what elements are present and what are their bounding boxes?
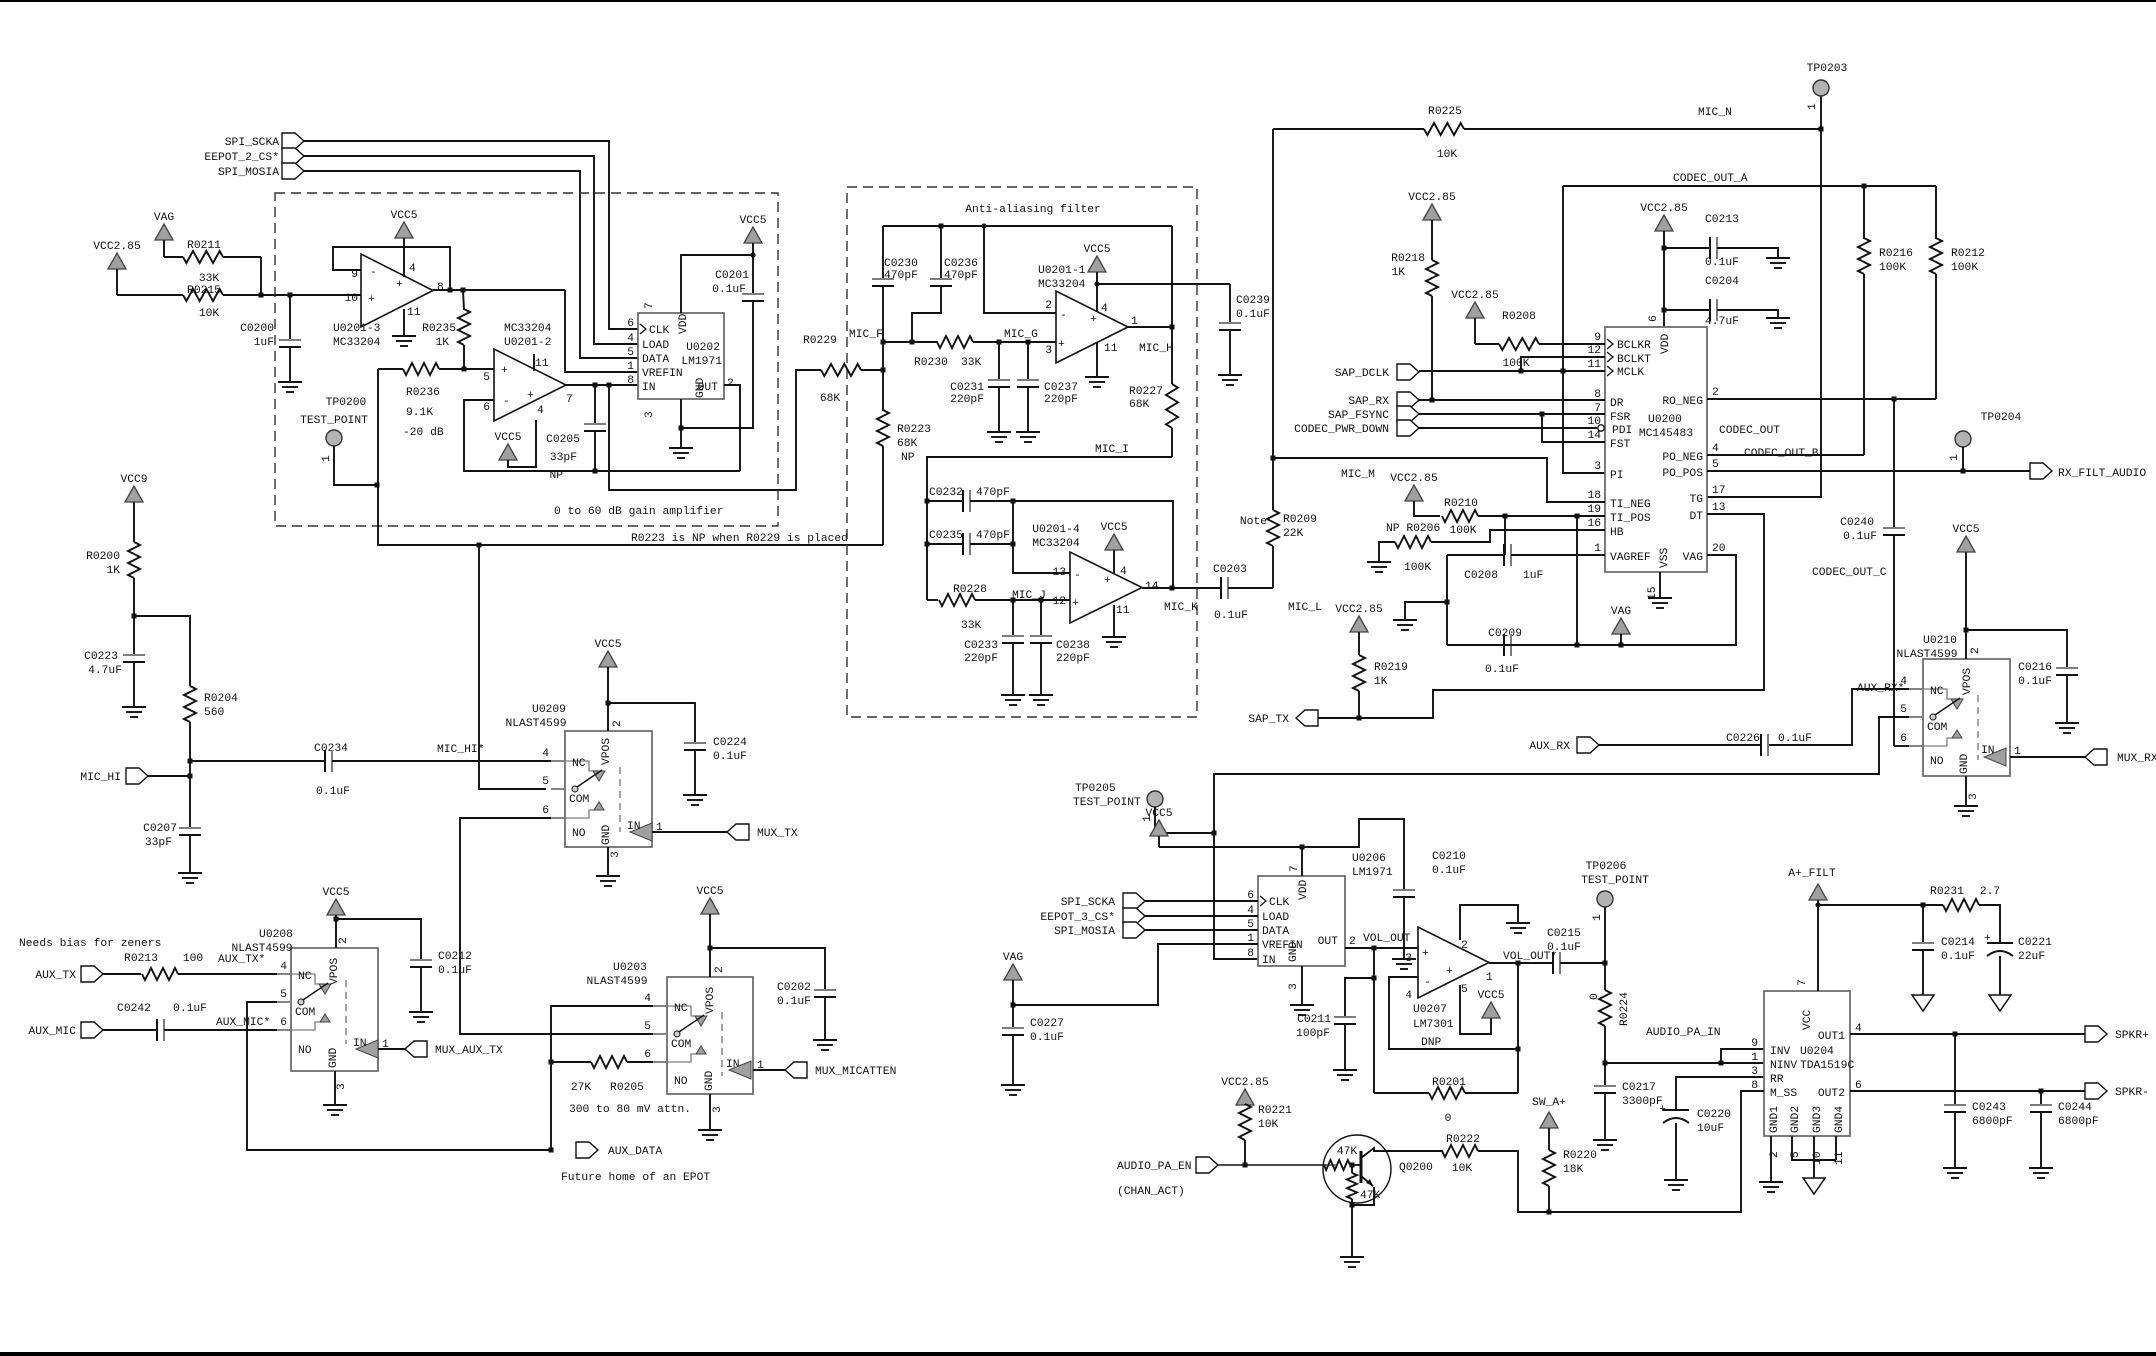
junction R0211/R0215 bbox=[259, 293, 264, 298]
node CODEC_PWR_DOWN input connector bbox=[1294, 420, 1419, 436]
svg-text:0.1uF: 0.1uF bbox=[1843, 531, 1877, 543]
node MIC_J bbox=[1011, 590, 1071, 603]
wire VAG pin20 bbox=[1447, 555, 1736, 648]
chip U0204 TDA1519C bbox=[1751, 979, 1862, 1165]
wire U0201-2 output bbox=[564, 383, 638, 388]
svg-text:C0233: C0233 bbox=[964, 640, 998, 652]
node CODEC_OUT bbox=[1719, 425, 1780, 437]
svg-text:LM7301: LM7301 bbox=[1413, 1019, 1454, 1031]
chip U0203 NLAST4599 bbox=[586, 962, 764, 1113]
resistor R0225 10K bbox=[1273, 106, 1821, 161]
svg-text:R0220: R0220 bbox=[1563, 1150, 1597, 1162]
svg-text:VDD: VDD bbox=[1660, 333, 1672, 354]
wire CODEC_PWR_DOWN to PDI bbox=[1419, 425, 1604, 431]
svg-text:INV: INV bbox=[1770, 1046, 1791, 1058]
node SPI_MOSIA input connector (2) bbox=[1054, 922, 1258, 938]
op-amp U0201-1 bbox=[1038, 265, 1138, 363]
power VCC2.85 (R0215) bbox=[93, 241, 141, 295]
svg-text:VCC5: VCC5 bbox=[390, 210, 417, 222]
svg-text:VCC2.85: VCC2.85 bbox=[1451, 290, 1499, 302]
svg-text:A+_FILT: A+_FILT bbox=[1788, 868, 1836, 880]
svg-text:SPI_MOSIA: SPI_MOSIA bbox=[1054, 926, 1115, 938]
svg-text:470pF: 470pF bbox=[944, 270, 978, 282]
svg-text:0.1uF: 0.1uF bbox=[1778, 733, 1812, 745]
wire SAP_FSYNC to FSR bbox=[1419, 412, 1605, 417]
power SW_A+ bbox=[1532, 1097, 1566, 1150]
wire PO_NEG to R0216 bbox=[1707, 454, 1864, 456]
ground U0206 GND bbox=[1290, 966, 1314, 1015]
svg-text:M_SS: M_SS bbox=[1770, 1088, 1797, 1100]
svg-text:+: + bbox=[1072, 598, 1079, 610]
wire U0207 pin4 loop bbox=[1389, 977, 1518, 1049]
svg-text:VREFIN: VREFIN bbox=[642, 368, 683, 380]
testpoint TP0203 bbox=[1807, 63, 1848, 132]
wire R0236 input net bbox=[378, 369, 883, 545]
chip U0209 NLAST4599 bbox=[505, 704, 663, 858]
svg-text:VOL_OUT: VOL_OUT bbox=[1363, 933, 1411, 945]
resistor R0209 22K bbox=[1240, 458, 1317, 588]
svg-text:TDA1519C: TDA1519C bbox=[1800, 1060, 1854, 1072]
svg-text:C0202: C0202 bbox=[777, 982, 811, 994]
wire MIC_I bbox=[927, 444, 1172, 600]
power VAG (codec) bbox=[1611, 606, 1632, 645]
svg-text:5: 5 bbox=[1712, 459, 1719, 471]
svg-text:4: 4 bbox=[644, 993, 651, 1005]
svg-text:C0227: C0227 bbox=[1030, 1018, 1064, 1030]
svg-text:100K: 100K bbox=[1404, 562, 1431, 574]
svg-text:8: 8 bbox=[437, 282, 444, 294]
ground codec VSS bbox=[1648, 572, 1672, 608]
svg-text:+: + bbox=[1446, 966, 1453, 978]
svg-text:FSR: FSR bbox=[1610, 412, 1631, 424]
svg-text:+: + bbox=[1090, 314, 1097, 326]
resistor R0223 68K NP bbox=[877, 342, 931, 545]
svg-text:7: 7 bbox=[1289, 865, 1301, 872]
svg-text:MUX_RX: MUX_RX bbox=[2117, 753, 2156, 765]
resistor R0222 10K bbox=[1442, 1134, 1480, 1175]
svg-text:R0208: R0208 bbox=[1502, 311, 1536, 323]
svg-text:18K: 18K bbox=[1563, 1164, 1584, 1176]
node AUX_DATA output connector bbox=[576, 1142, 662, 1158]
resistor R0205 27K bbox=[551, 1056, 653, 1094]
svg-text:RR: RR bbox=[1770, 1074, 1784, 1086]
resistor R0206 100K NP bbox=[1367, 523, 1605, 574]
wire U0201-3 output bbox=[433, 288, 565, 293]
svg-text:GND1: GND1 bbox=[1769, 1106, 1781, 1133]
svg-text:SAP_TX: SAP_TX bbox=[1248, 714, 1289, 726]
svg-text:DNP: DNP bbox=[1421, 1037, 1442, 1049]
svg-text:4: 4 bbox=[280, 961, 287, 973]
svg-text:TI_NEG: TI_NEG bbox=[1610, 499, 1651, 511]
node EEPOT_2_CS* input connector bbox=[204, 148, 304, 164]
ground U0207 pin2 bbox=[1460, 905, 1530, 940]
wire MIC_HI node bbox=[188, 759, 193, 829]
op-amp U0201-4 bbox=[1032, 524, 1159, 623]
svg-text:C0238: C0238 bbox=[1056, 640, 1090, 652]
svg-text:MUX_AUX_TX: MUX_AUX_TX bbox=[435, 1045, 503, 1057]
svg-text:6: 6 bbox=[644, 1049, 651, 1061]
svg-text:MIC_L: MIC_L bbox=[1288, 602, 1322, 614]
svg-text:0.1uF: 0.1uF bbox=[173, 1003, 207, 1015]
svg-text:0: 0 bbox=[1445, 1113, 1452, 1125]
svg-text:2: 2 bbox=[1970, 647, 1982, 654]
resistor R0228 33K bbox=[927, 584, 1013, 632]
node MUX_MICATTEN input connector bbox=[785, 1062, 896, 1078]
wire gain-input to U0209 COM bbox=[479, 545, 546, 789]
wire RO_NEG to R0212 bbox=[1707, 397, 1936, 402]
wire OUT2 SPKR- bbox=[1850, 1089, 2085, 1094]
svg-text:C0210: C0210 bbox=[1432, 851, 1466, 863]
power A+_FILT bbox=[1788, 868, 1836, 991]
svg-text:U0210: U0210 bbox=[1923, 635, 1957, 647]
node SAP_FSYNC input connector bbox=[1328, 406, 1419, 422]
node AUX_RX* label bbox=[1857, 683, 1904, 695]
svg-text:R0213: R0213 bbox=[124, 953, 158, 965]
svg-text:1: 1 bbox=[1592, 914, 1604, 921]
svg-text:1K: 1K bbox=[106, 565, 120, 577]
svg-text:VCC2.85: VCC2.85 bbox=[1640, 203, 1688, 215]
svg-text:0.1uF: 0.1uF bbox=[2018, 676, 2052, 688]
wire U0208 IN to MUX_AUX_TX bbox=[378, 1048, 405, 1050]
capacitor C0203 0.1uF bbox=[1172, 564, 1273, 622]
wire CODEC_OUT_A rail bbox=[1563, 184, 1936, 189]
ground U0201-1 pin11 bbox=[1085, 343, 1109, 387]
svg-text:4: 4 bbox=[1120, 566, 1127, 578]
svg-text:2: 2 bbox=[714, 966, 726, 973]
svg-text:0.1uF: 0.1uF bbox=[1030, 1032, 1064, 1044]
svg-text:0.1uF: 0.1uF bbox=[712, 284, 746, 296]
resistor R0229 68K bbox=[803, 335, 886, 405]
svg-text:0.1uF: 0.1uF bbox=[316, 786, 350, 798]
svg-text:-: - bbox=[370, 267, 377, 279]
svg-text:U0202: U0202 bbox=[686, 342, 720, 354]
svg-text:PO_POS: PO_POS bbox=[1662, 468, 1703, 480]
node SPKR- output connector bbox=[2085, 1083, 2149, 1099]
svg-text:2: 2 bbox=[1461, 940, 1468, 952]
svg-text:4: 4 bbox=[1405, 990, 1412, 1002]
chip U0206 LM1971 bbox=[1247, 853, 1393, 990]
power VCC5 (U0202) bbox=[739, 215, 766, 255]
svg-text:MIC_H: MIC_H bbox=[1139, 343, 1173, 355]
svg-text:OUT2: OUT2 bbox=[1818, 1088, 1845, 1100]
svg-text:PI: PI bbox=[1610, 470, 1624, 482]
svg-text:33K: 33K bbox=[199, 273, 220, 285]
svg-text:4.7uF: 4.7uF bbox=[88, 665, 122, 677]
svg-text:VPOS: VPOS bbox=[329, 958, 341, 985]
svg-text:MUX_MICATTEN: MUX_MICATTEN bbox=[815, 1066, 896, 1078]
svg-text:1uF: 1uF bbox=[254, 337, 274, 349]
svg-text:3: 3 bbox=[712, 1106, 724, 1113]
svg-text:U0201-4: U0201-4 bbox=[1032, 524, 1080, 536]
op-amp U0207 bbox=[1405, 927, 1493, 1049]
svg-text:SPKR+: SPKR+ bbox=[2115, 1030, 2149, 1042]
capacitor C0223 4.7uF bbox=[84, 616, 146, 717]
svg-text:IN: IN bbox=[1262, 955, 1276, 967]
svg-text:0: 0 bbox=[1589, 993, 1601, 1000]
svg-text:33K: 33K bbox=[961, 357, 982, 369]
svg-text:VPOS: VPOS bbox=[1962, 668, 1974, 695]
svg-text:C0217: C0217 bbox=[1622, 1082, 1656, 1094]
svg-text:NC: NC bbox=[1930, 686, 1944, 698]
svg-text:0.1uF: 0.1uF bbox=[713, 751, 747, 763]
svg-text:TP0200: TP0200 bbox=[326, 397, 367, 409]
svg-text:8: 8 bbox=[627, 375, 634, 387]
svg-text:2: 2 bbox=[727, 378, 734, 390]
resistor R0231 2.7 bbox=[1923, 886, 2000, 943]
svg-text:VPOS: VPOS bbox=[705, 987, 717, 1014]
node CODEC_OUT_A bbox=[1673, 173, 1748, 185]
wire VCC9 to R0204 bbox=[134, 616, 190, 686]
svg-text:11: 11 bbox=[407, 307, 421, 319]
resistor R0212 100K bbox=[1930, 186, 1985, 399]
power VCC5 (U0201-2 pin4) bbox=[494, 420, 536, 467]
power VCC2.85 (R0210) bbox=[1390, 473, 1440, 516]
node MIC_HI input connector bbox=[80, 768, 190, 784]
svg-text:GND: GND bbox=[1959, 753, 1971, 774]
wire U0202 VDD bbox=[681, 255, 753, 313]
power VCC2.85 (R0221) bbox=[1221, 1077, 1269, 1105]
svg-text:CLK: CLK bbox=[1269, 897, 1290, 909]
node Future EPOT note bbox=[561, 1172, 710, 1184]
svg-text:1: 1 bbox=[1807, 103, 1819, 110]
capacitor C0200 1uF bbox=[240, 295, 302, 392]
svg-text:VCC5: VCC5 bbox=[696, 886, 723, 898]
capacitor C0224 0.1uF bbox=[608, 703, 747, 805]
svg-text:CODEC_OUT_B: CODEC_OUT_B bbox=[1744, 448, 1819, 460]
power VCC5 (U0210) bbox=[1952, 524, 1979, 659]
svg-text:0.1uF: 0.1uF bbox=[438, 965, 472, 977]
svg-text:R0216: R0216 bbox=[1879, 248, 1913, 260]
svg-text:C0232: C0232 bbox=[929, 487, 963, 499]
chip U0210 NLAST4599 bbox=[1896, 635, 2021, 800]
svg-text:VCC5: VCC5 bbox=[1083, 244, 1110, 256]
svg-text:NC: NC bbox=[674, 1003, 688, 1015]
svg-text:MC33204: MC33204 bbox=[504, 323, 552, 335]
wire output to R0229 net bbox=[609, 370, 821, 490]
svg-text:-: - bbox=[503, 396, 510, 408]
resistor R0211 33K bbox=[183, 240, 261, 295]
capacitor C0217 3300pF bbox=[1593, 1082, 1663, 1150]
node SPI_MOSIA input connector bbox=[218, 163, 304, 179]
svg-text:GND: GND bbox=[328, 1047, 340, 1068]
wire U0201-1 feedback bbox=[1171, 226, 1173, 327]
svg-text:R0205: R0205 bbox=[610, 1082, 644, 1094]
svg-text:LM1971: LM1971 bbox=[1352, 867, 1393, 879]
svg-text:10K: 10K bbox=[1452, 1163, 1473, 1175]
power VCC5 (U0209) bbox=[594, 639, 621, 731]
svg-text:NP: NP bbox=[549, 470, 563, 482]
wire U0201-4 output MIC_K bbox=[1142, 586, 1198, 615]
svg-text:68K: 68K bbox=[1129, 399, 1150, 411]
node MIC_L bbox=[1288, 602, 1322, 614]
wire output to U0202 VREFIN bbox=[565, 290, 638, 372]
svg-text:R0230: R0230 bbox=[914, 357, 948, 369]
anti-aliasing filter dashed block bbox=[847, 187, 1197, 717]
svg-text:COM: COM bbox=[671, 1039, 692, 1051]
svg-text:10K: 10K bbox=[199, 308, 220, 320]
junction VCC5/C0201 bbox=[750, 252, 755, 257]
svg-text:C0223: C0223 bbox=[84, 651, 118, 663]
node SPKR+ output connector bbox=[2085, 1026, 2149, 1042]
svg-text:DATA: DATA bbox=[642, 354, 669, 366]
junction R0235/R0236/pin5 bbox=[462, 367, 467, 372]
svg-text:C0224: C0224 bbox=[713, 737, 747, 749]
testpoint TP0200 bbox=[300, 397, 377, 485]
svg-text:U0200: U0200 bbox=[1648, 414, 1682, 426]
svg-text:MIC_F: MIC_F bbox=[849, 329, 883, 341]
resistor R0224 0 bbox=[1589, 963, 1631, 1086]
svg-text:0.1uF: 0.1uF bbox=[1941, 951, 1975, 963]
wire C0232/C0235 to pin13 bbox=[1011, 499, 1071, 574]
resistor R0235 1K bbox=[422, 290, 470, 369]
svg-text:TP0206: TP0206 bbox=[1586, 861, 1627, 873]
capacitor C0235 470pF bbox=[925, 530, 1014, 555]
svg-text:2: 2 bbox=[1045, 300, 1052, 312]
border bar top bbox=[0, 0, 2156, 2]
transistor Q0200 bbox=[1323, 1135, 1443, 1267]
svg-text:3: 3 bbox=[1288, 983, 1300, 990]
svg-text:TP0204: TP0204 bbox=[1981, 412, 2022, 424]
svg-text:GND: GND bbox=[601, 824, 613, 845]
svg-text:VCC5: VCC5 bbox=[1952, 524, 1979, 536]
svg-text:MC33204: MC33204 bbox=[1038, 279, 1086, 291]
node SAP_TX output connector bbox=[1248, 710, 1318, 726]
wire EEPOT_2_CS* to U0202 LOAD bbox=[304, 156, 638, 344]
svg-text:C0214: C0214 bbox=[1941, 937, 1975, 949]
svg-text:GND: GND bbox=[695, 377, 707, 398]
svg-text:VCC2.85: VCC2.85 bbox=[93, 241, 141, 253]
svg-text:C0211: C0211 bbox=[1297, 1014, 1331, 1026]
svg-text:MC145483: MC145483 bbox=[1639, 428, 1693, 440]
svg-text:R0218: R0218 bbox=[1391, 253, 1425, 265]
svg-text:VAG: VAG bbox=[154, 212, 175, 224]
svg-text:9: 9 bbox=[1751, 1038, 1758, 1050]
capacitor C0233 220pF bbox=[964, 600, 1025, 705]
svg-text:R0200: R0200 bbox=[86, 551, 120, 563]
capacitor C0238 220pF bbox=[1029, 600, 1090, 705]
svg-text:0.1uF: 0.1uF bbox=[1432, 865, 1466, 877]
capacitor C0231 220pF bbox=[950, 342, 1011, 442]
svg-text:4: 4 bbox=[542, 748, 549, 760]
ground U0209 GND pin3 bbox=[596, 847, 620, 886]
svg-text:EEPOT_2_CS*: EEPOT_2_CS* bbox=[204, 152, 279, 164]
svg-text:VCC5: VCC5 bbox=[322, 887, 349, 899]
svg-text:NLAST4599: NLAST4599 bbox=[505, 718, 566, 730]
resistor R0230 33K bbox=[883, 336, 1056, 369]
testpoint TP0206 bbox=[1581, 861, 1649, 966]
svg-text:DT: DT bbox=[1689, 511, 1703, 523]
svg-text:1: 1 bbox=[1594, 543, 1601, 555]
op-amp U0201-3 bbox=[333, 254, 444, 349]
svg-text:GND: GND bbox=[704, 1070, 716, 1091]
svg-text:6: 6 bbox=[1900, 733, 1907, 745]
wire SAP_RX to DR bbox=[1419, 398, 1605, 403]
resistor R0213 100 bbox=[124, 953, 277, 980]
svg-text:2: 2 bbox=[1349, 936, 1356, 948]
svg-text:VAG: VAG bbox=[1683, 552, 1704, 564]
resistor R0208 100K bbox=[1475, 311, 1605, 370]
svg-text:C0239: C0239 bbox=[1236, 295, 1270, 307]
svg-text:16: 16 bbox=[1587, 518, 1601, 530]
svg-text:R0211: R0211 bbox=[187, 240, 221, 252]
svg-text:220pF: 220pF bbox=[1056, 653, 1090, 665]
node VOL_OUT bbox=[1363, 933, 1411, 945]
capacitor C0208 1uF bbox=[1447, 516, 1577, 582]
svg-text:3: 3 bbox=[1405, 953, 1412, 965]
wire U0201-2 feedback loop bbox=[464, 400, 740, 471]
svg-text:4: 4 bbox=[1101, 303, 1108, 315]
capacitor C0236 470pF bbox=[912, 226, 978, 342]
svg-text:VCC2.85: VCC2.85 bbox=[1390, 473, 1438, 485]
svg-text:R0229: R0229 bbox=[803, 335, 837, 347]
svg-text:+: + bbox=[396, 279, 403, 291]
wire U0210 COM to volume IN bbox=[1212, 717, 1910, 959]
wire SPI_SCKA to U0202 CLK bbox=[304, 141, 638, 329]
svg-text:3: 3 bbox=[1594, 461, 1601, 473]
svg-text:IN: IN bbox=[726, 1059, 740, 1071]
capacitor C0216 0.1uF bbox=[1966, 630, 2079, 733]
wire DT to SAP_TX bbox=[1316, 514, 1764, 721]
svg-text:3: 3 bbox=[1968, 793, 1980, 800]
power VCC2.85 (R0219) bbox=[1335, 604, 1383, 655]
wire OUT1 SPKR+ bbox=[1850, 1032, 2085, 1037]
svg-text:VCC9: VCC9 bbox=[120, 474, 147, 486]
junction MIC_HI* riser bbox=[477, 543, 482, 548]
wire U0201-4 feedback bbox=[1013, 501, 1173, 588]
svg-text:R0225: R0225 bbox=[1428, 106, 1462, 118]
svg-text:C0226: C0226 bbox=[1726, 733, 1760, 745]
capacitor C0212 0.1uF bbox=[336, 919, 472, 1022]
svg-text:R0221: R0221 bbox=[1258, 1105, 1292, 1117]
svg-text:TEST_POINT: TEST_POINT bbox=[1073, 797, 1141, 809]
svg-text:4: 4 bbox=[1712, 443, 1719, 455]
resistor R0221 10K bbox=[1239, 1104, 1292, 1165]
svg-text:SPI_SCKA: SPI_SCKA bbox=[225, 137, 279, 149]
svg-text:+: + bbox=[368, 294, 375, 306]
svg-text:MIC_M: MIC_M bbox=[1341, 469, 1375, 481]
svg-text:27K: 27K bbox=[571, 1082, 592, 1094]
resistor R0227 68K bbox=[1129, 327, 1178, 457]
svg-text:NC: NC bbox=[572, 758, 586, 770]
svg-text:TG: TG bbox=[1689, 494, 1703, 506]
svg-text:11: 11 bbox=[535, 358, 549, 370]
svg-text:LOAD: LOAD bbox=[1262, 912, 1289, 924]
wire VOL_OUT feedback taps bbox=[1372, 948, 1377, 1093]
svg-text:C0200: C0200 bbox=[240, 323, 274, 335]
svg-text:NLAST4599: NLAST4599 bbox=[1896, 649, 1957, 661]
svg-text:33K: 33K bbox=[961, 620, 982, 632]
svg-text:68K: 68K bbox=[820, 393, 841, 405]
svg-text:BCLKT: BCLKT bbox=[1617, 354, 1651, 366]
capacitor C0210 0.1uF bbox=[1392, 851, 1466, 969]
svg-text:7: 7 bbox=[644, 302, 656, 309]
svg-text:-: - bbox=[1424, 977, 1431, 989]
resistor R0236 9.1K bbox=[378, 363, 463, 439]
svg-text:R0228: R0228 bbox=[953, 584, 987, 596]
node attn note bbox=[569, 1104, 691, 1116]
ground U0204 GND1 bbox=[1759, 1136, 1783, 1192]
svg-text:U0207: U0207 bbox=[1413, 1004, 1447, 1016]
capacitor C0220 10uF bbox=[1659, 1077, 1764, 1190]
svg-text:GND4: GND4 bbox=[1834, 1106, 1846, 1133]
wire M_SS bbox=[1478, 1091, 1764, 1215]
svg-text:VCC5: VCC5 bbox=[594, 639, 621, 651]
svg-text:100K: 100K bbox=[1879, 262, 1906, 274]
svg-text:1: 1 bbox=[1751, 1052, 1758, 1064]
svg-text:6: 6 bbox=[627, 318, 634, 330]
svg-text:TI_POS: TI_POS bbox=[1610, 513, 1651, 525]
wire AUDIO_PA_EN to Q0200 bbox=[1218, 1163, 1336, 1168]
